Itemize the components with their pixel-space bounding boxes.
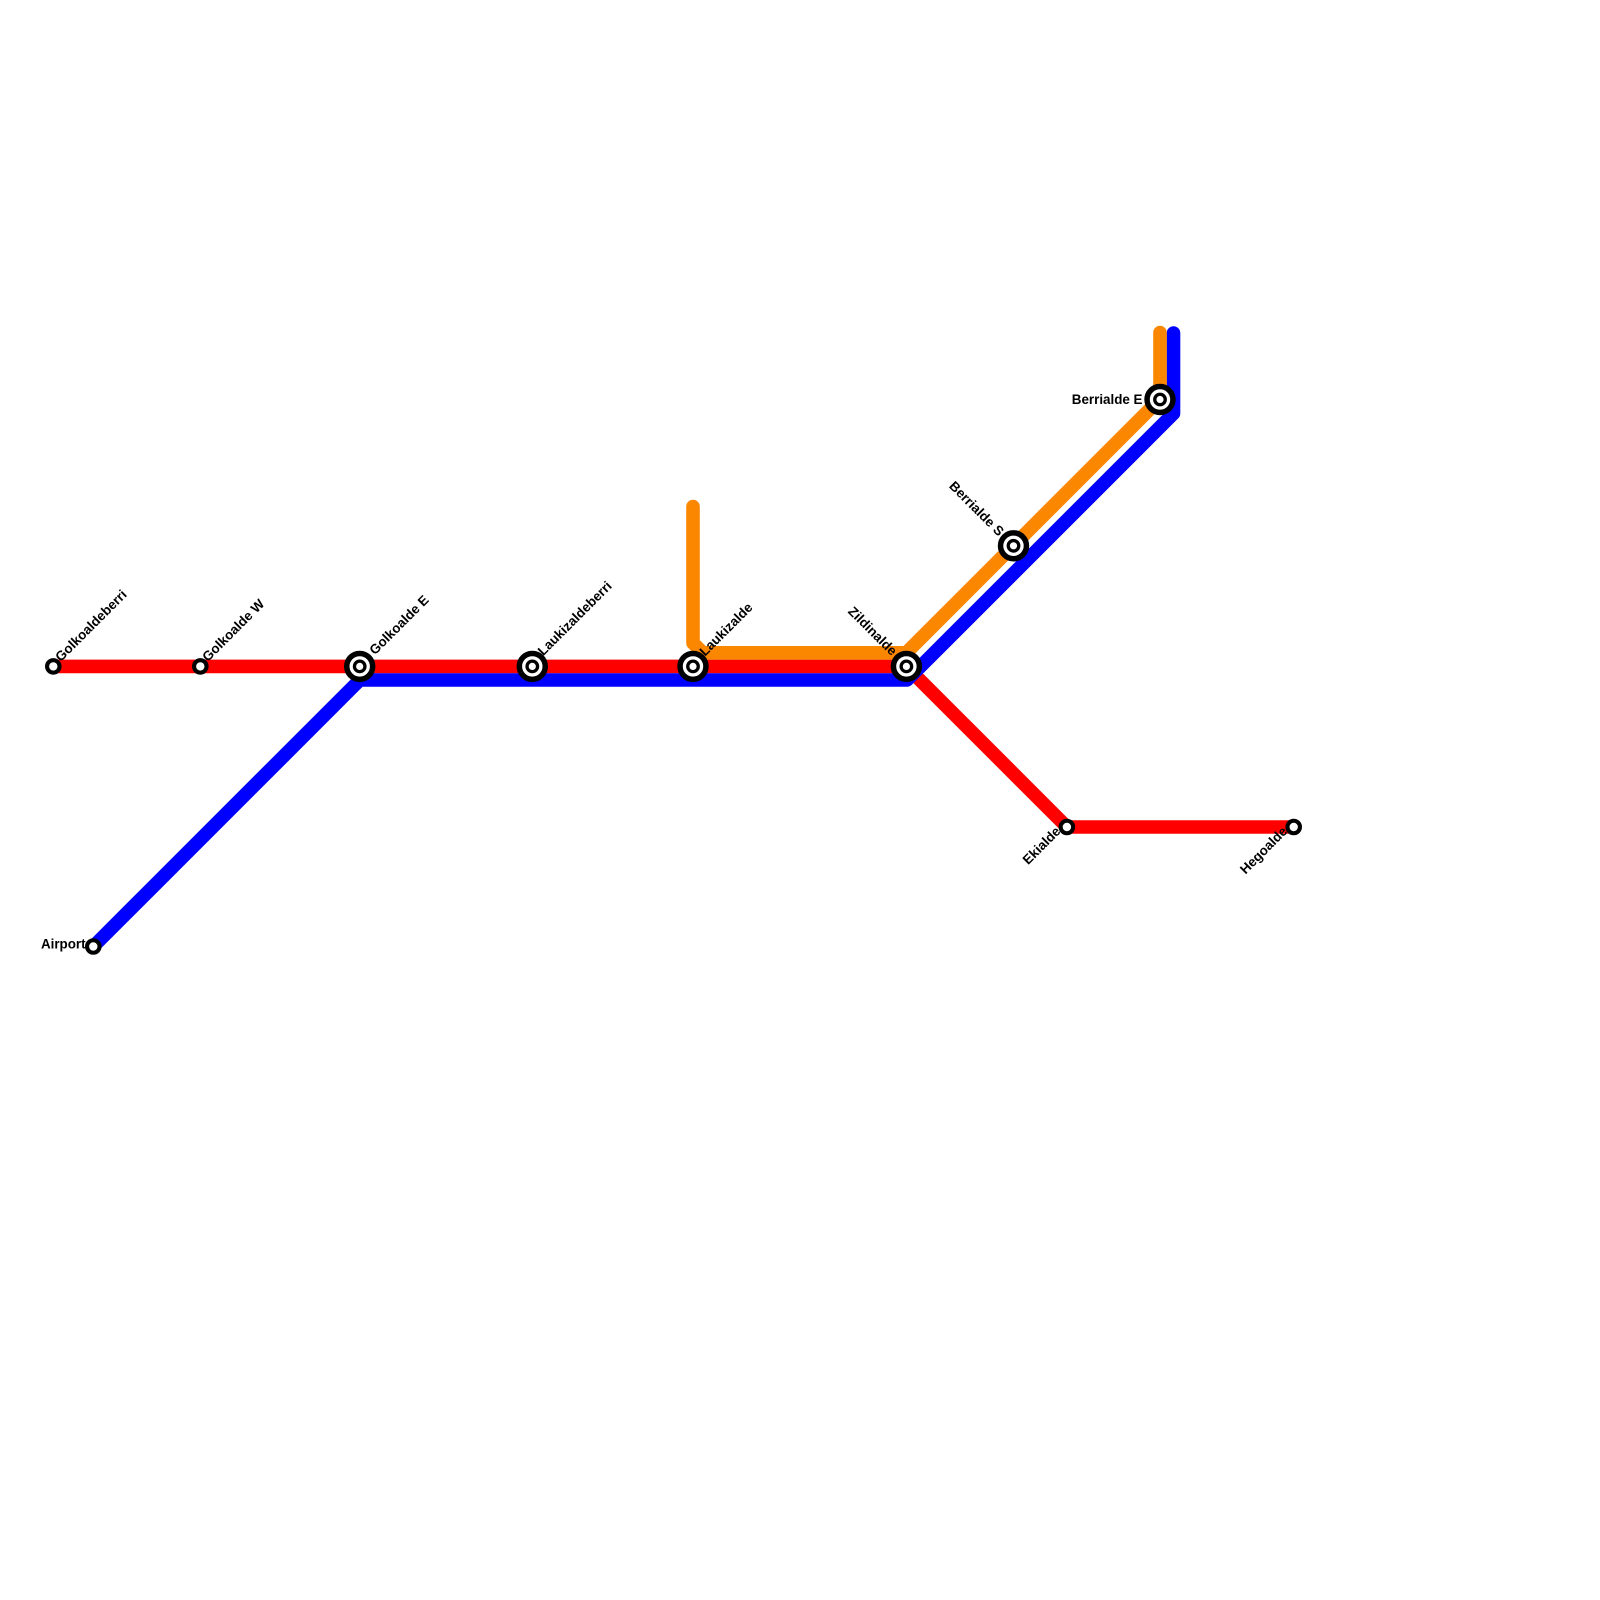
svg-text:Berrialde E: Berrialde E: [1072, 392, 1143, 407]
svg-text:Golkoalde W: Golkoalde W: [199, 596, 267, 664]
node Zildinalde interchange: [845, 604, 919, 680]
svg-text:Airport: Airport: [41, 937, 86, 952]
svg-text:Ekialde: Ekialde: [1020, 824, 1064, 868]
node Airport: [41, 937, 100, 953]
svg-text:Golkoaldeberri: Golkoaldeberri: [52, 587, 129, 664]
node Golkoaldeberri: [47, 587, 130, 673]
node Golkoalde W: [194, 596, 267, 673]
wire blue line Airport-GolkoaldeE-Zildinalde-BerrialdeE: [93, 333, 1173, 947]
node Ekialde: [1020, 821, 1074, 868]
wire red line Golkoaldeberri-Zildinalde-Ekialde-Hegoalde: [53, 666, 1293, 827]
node Laukizaldeberri interchange: [519, 578, 614, 679]
node Laukizalde interchange: [680, 600, 755, 680]
svg-text:Laukizaldeberri: Laukizaldeberri: [535, 578, 615, 658]
node Hegoalde: [1237, 821, 1300, 877]
wire orange line branch-Laukizalde-Zildinalde-BerrialdeE: [693, 333, 1160, 653]
svg-text:Golkoalde E: Golkoalde E: [366, 592, 431, 657]
svg-text:Berrialde S: Berrialde S: [946, 478, 1007, 539]
node Berrialde E interchange: [1072, 387, 1173, 413]
node Golkoalde E interchange: [347, 592, 432, 679]
node Berrialde S interchange: [946, 478, 1026, 558]
